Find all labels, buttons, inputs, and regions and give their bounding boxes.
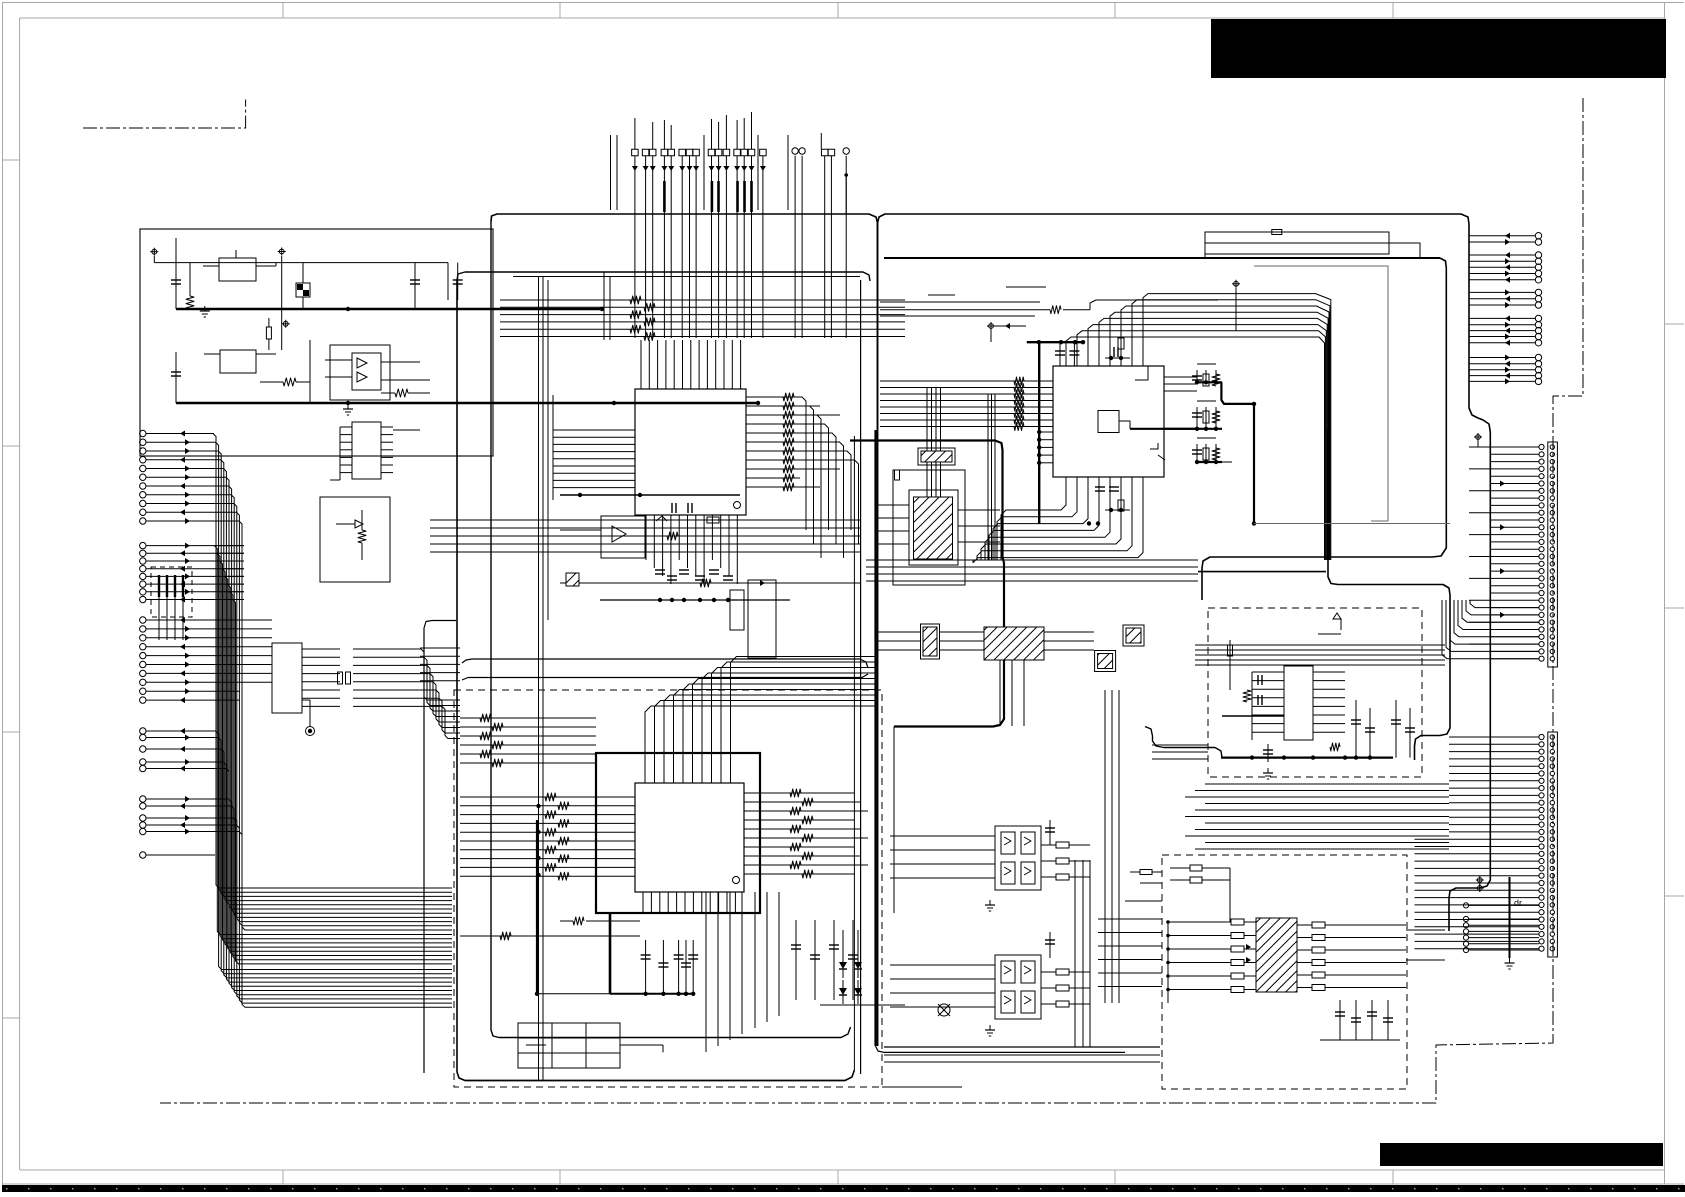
svg-text:dr: dr xyxy=(1514,898,1522,908)
